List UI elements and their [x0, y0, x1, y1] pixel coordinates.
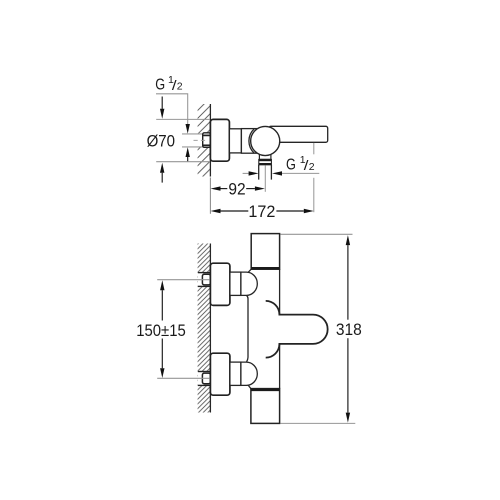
svg-text:G: G — [155, 76, 165, 93]
wall face line (lower view) — [209, 244, 211, 413]
body left edge transition top — [248, 269, 251, 272]
svg-text:150±15: 150±15 — [136, 323, 186, 341]
extension line at handle end — [313, 143, 315, 154]
svg-text:2: 2 — [177, 80, 183, 92]
top escutcheon — [210, 263, 230, 305]
bottom union nut white gap — [198, 372, 211, 386]
valve knob circle — [251, 126, 280, 155]
outlet centerline — [264, 166, 266, 192]
arrow down to pipe — [186, 124, 190, 134]
body left edge transition bottom — [248, 385, 251, 388]
top union centerline / 150 extension — [157, 279, 209, 281]
lever handle — [269, 126, 328, 142]
spout (lower view) — [266, 301, 328, 358]
bottom union flange lines — [198, 371, 211, 373]
supply pipe lines — [182, 133, 203, 135]
svg-text:Ø70: Ø70 — [147, 133, 176, 151]
svg-text:318: 318 — [336, 322, 362, 339]
wall hatching (lower view) — [198, 244, 211, 413]
svg-text:92: 92 — [228, 181, 245, 198]
label G1/2 (top) — [155, 76, 165, 93]
dimension 150±15 — [160, 280, 164, 290]
Ø70 dimension arrows — [161, 97, 163, 109]
outlet pipe lines — [258, 165, 260, 180]
cylinder dome contour arc — [249, 129, 254, 153]
svg-text:172: 172 — [248, 203, 275, 221]
body cylinder — [241, 129, 258, 154]
bottom union dome — [241, 362, 257, 385]
arrow up to pipe bottom — [186, 147, 190, 157]
top union dome — [241, 272, 257, 295]
escutcheon Ø70 (top view) — [210, 119, 229, 161]
dimension 318 — [281, 233, 353, 235]
svg-text:G: G — [286, 156, 296, 173]
label G1/2 (outlet) — [286, 156, 296, 173]
union nut at wall (top view) — [203, 133, 211, 148]
bottom cap (volume handle housing) — [251, 389, 280, 424]
wall face line (top view) — [209, 104, 211, 177]
top union nut white gap — [198, 273, 211, 287]
supply pipe centerline — [194, 139, 209, 141]
wall hatching (top view) — [198, 104, 211, 177]
supply pipe behind wall (white gap in hatch) — [193, 133, 210, 147]
aerator — [259, 159, 272, 164]
outlet neck — [259, 149, 271, 159]
svg-text:2: 2 — [309, 161, 315, 173]
top cap (thermostat housing) — [251, 234, 279, 270]
top union nut — [202, 274, 210, 285]
bottom escutcheon — [210, 353, 230, 395]
body column right edge upper — [279, 269, 281, 314]
dimension 92 — [211, 186, 221, 190]
body column left edge — [247, 296, 248, 362]
extension line at wall (top view) — [209, 178, 211, 214]
body column right edge lower — [279, 344, 281, 389]
top union flange lines — [198, 272, 211, 274]
bottom union body — [230, 362, 241, 385]
G1/2 outlet arrows and leader — [243, 172, 249, 174]
leader G1/2 top — [156, 94, 188, 124]
bottom union nut — [202, 373, 210, 384]
body hub — [229, 129, 241, 153]
bottom union centerline / 150 extension — [157, 377, 209, 379]
top union body — [230, 272, 241, 295]
Ø70 extension lines — [156, 118, 210, 120]
dimension 172 — [211, 209, 221, 213]
Ø70 text — [147, 133, 176, 151]
